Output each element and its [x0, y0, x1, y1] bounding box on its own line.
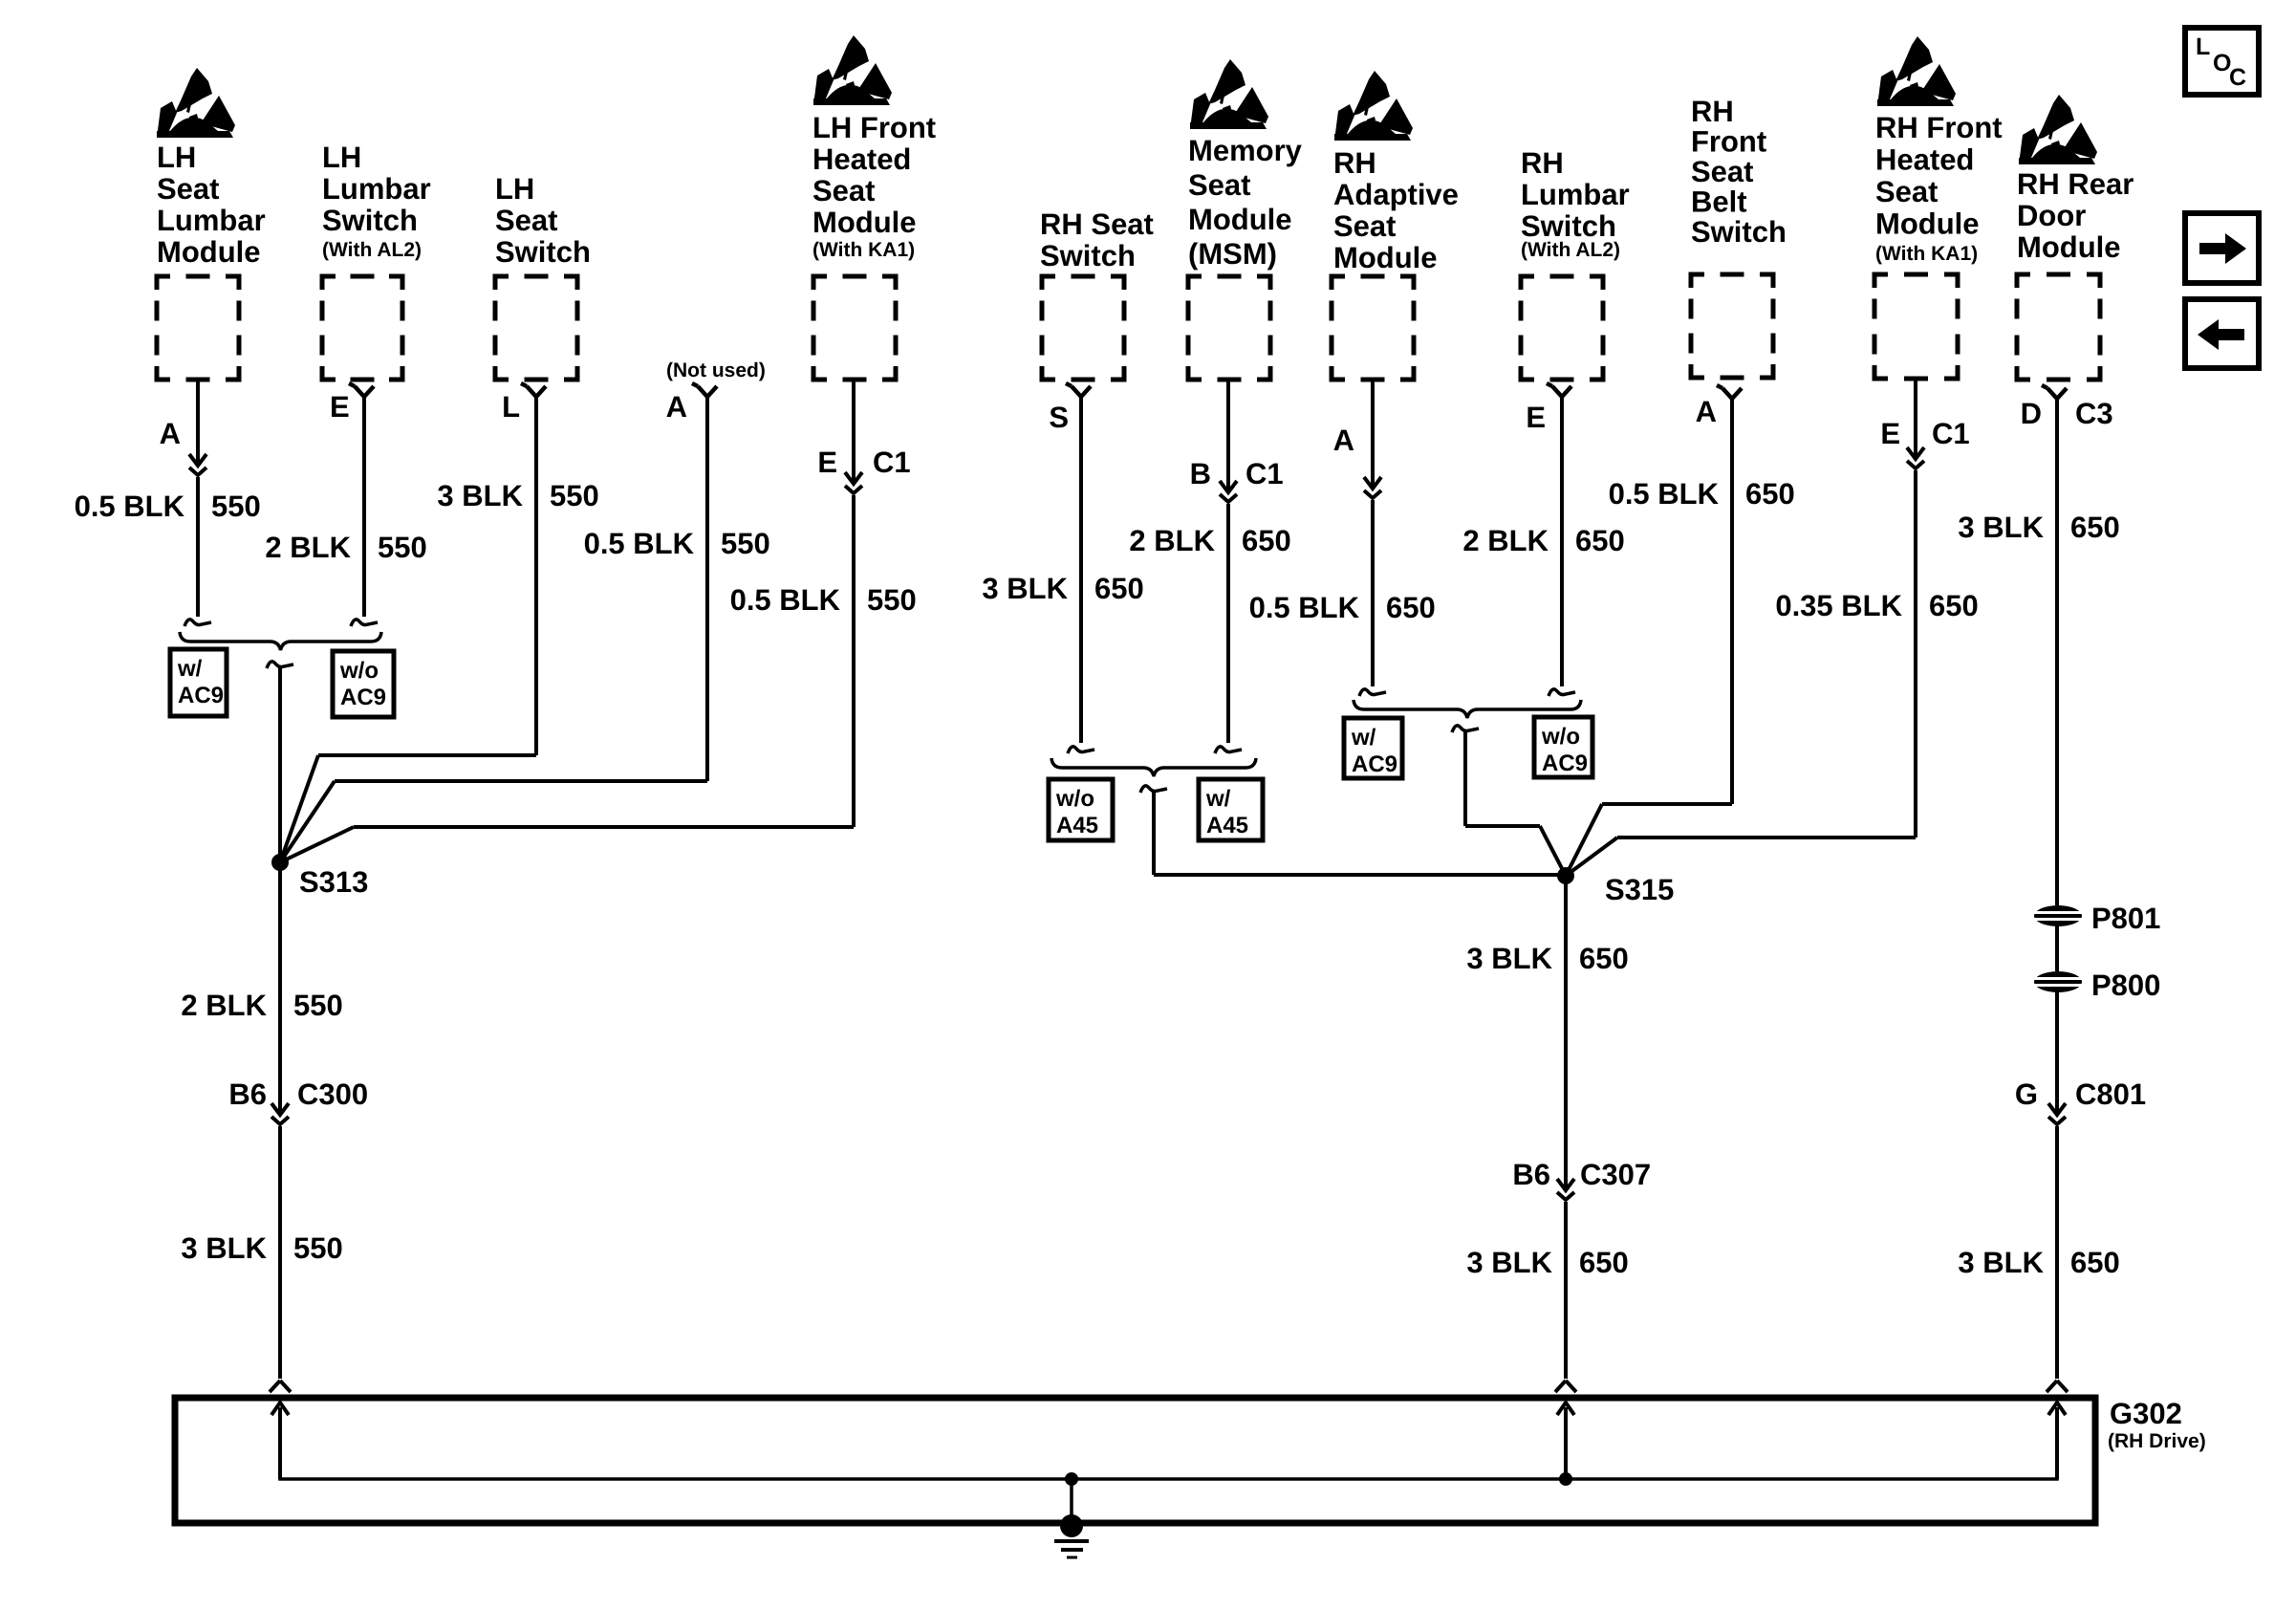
svg-text:Module: Module [812, 206, 917, 239]
wire RH adaptive seat pin A upper [1371, 380, 1375, 487]
svg-text:650: 650 [1575, 524, 1625, 557]
svg-text:LH: LH [157, 141, 196, 174]
svg-text:(Not used): (Not used) [666, 359, 766, 381]
wire end hook (LH lumbar switch) [351, 620, 378, 626]
svg-text:B: B [1190, 457, 1211, 490]
svg-text:Belt: Belt [1691, 185, 1747, 219]
svg-text:w/o: w/o [1541, 724, 1580, 750]
wire from right AC9 brace down [1463, 730, 1467, 826]
svg-text:Seat: Seat [812, 174, 875, 207]
svg-text:0.5 BLK: 0.5 BLK [1249, 591, 1360, 624]
wire horizontal run (right AC9 group) [1465, 824, 1540, 828]
brace joining RH adaptive and RH lumbar wires (AC9 options) [1354, 700, 1581, 718]
svg-text:Adaptive: Adaptive [1333, 178, 1459, 211]
svg-text:C1: C1 [1932, 417, 1970, 450]
svg-text:550: 550 [211, 490, 261, 523]
wire 3 BLK 650 from C307 to G302 [1564, 1202, 1568, 1379]
component LH Seat Switch label [495, 172, 591, 269]
svg-text:C3: C3 [2075, 397, 2113, 430]
svg-text:550: 550 [867, 583, 917, 617]
svg-text:A: A [1696, 395, 1717, 428]
LH Seat Switch connector box [495, 276, 577, 380]
wire diagonal into S313 (LH seat switch) [280, 755, 318, 862]
hook below brace (A45 group) [1140, 786, 1167, 793]
svg-text:(With KA1): (With KA1) [812, 239, 915, 261]
component RH Adaptive Seat Module label [1333, 146, 1459, 274]
svg-text:P800: P800 [2091, 968, 2160, 1002]
svg-text:Seat: Seat [157, 172, 219, 206]
wire ground tap down to G302 ground point [1070, 1479, 1073, 1524]
RH Front Seat Belt Switch connector box [1691, 274, 1773, 378]
connector arrow on LH seat lumbar wire [189, 454, 206, 475]
svg-text:0.5 BLK: 0.5 BLK [1609, 477, 1720, 511]
svg-text:650: 650 [1386, 591, 1436, 624]
svg-text:Heated: Heated [1875, 143, 1974, 177]
svg-text:A: A [160, 417, 181, 450]
svg-text:C1: C1 [1245, 457, 1284, 490]
connector C307 arrow [1557, 1179, 1574, 1200]
svg-text:Switch: Switch [1040, 239, 1136, 272]
svg-text:E: E [817, 446, 837, 479]
terminal fork pin A (RH Front Seat Belt Switch) [1717, 385, 1742, 399]
svg-text:RH Front: RH Front [1875, 111, 2003, 144]
component RH Seat Switch label [1040, 207, 1154, 272]
option box w/o AC9 (left) [333, 651, 394, 717]
svg-text:550: 550 [721, 527, 770, 560]
svg-text:3 BLK: 3 BLK [1958, 511, 2044, 544]
wire horizontal run into S315 (A45 group) [1154, 873, 1566, 877]
ESD-sensitive symbol (Memory Seat Module) [1190, 59, 1268, 129]
svg-text:3 BLK: 3 BLK [437, 479, 523, 512]
option box w/ AC9 (right) [1344, 718, 1402, 778]
RH Front Heated Seat Module connector box [1874, 274, 1958, 379]
RH Lumbar Switch connector box [1521, 276, 1603, 380]
svg-text:3 BLK: 3 BLK [1466, 1246, 1552, 1279]
svg-text:3 BLK: 3 BLK [1958, 1246, 2044, 1279]
terminal fork pin A (not used) [692, 383, 717, 397]
connector C300 arrow [271, 1103, 289, 1124]
wire 3 BLK 550 from C300 to G302 [278, 1126, 282, 1379]
LH Front Heated Seat Module connector box [813, 276, 896, 380]
svg-text:C307: C307 [1580, 1158, 1651, 1191]
svg-text:Seat: Seat [1333, 209, 1396, 243]
wire LH Seat Lumbar Module pin A upper [196, 380, 200, 464]
svg-text:2 BLK: 2 BLK [181, 989, 267, 1022]
wire from A45 brace down [1152, 792, 1156, 875]
wire horizontal run to S315 (belt switch) [1602, 802, 1732, 806]
wire horizontal run to S313 (not used) [335, 779, 707, 783]
RH Rear Door Module connector box [2017, 274, 2100, 380]
wire diagonal into S315 (right AC9 group) [1540, 826, 1566, 876]
brace joining LH lumbar wires (w/ AC9 vs w/o AC9) [180, 632, 381, 650]
svg-text:(MSM): (MSM) [1188, 237, 1277, 271]
svg-text:AC9: AC9 [178, 683, 224, 708]
junction dot on collector line (middle) [1559, 1472, 1572, 1486]
terminal chevron at G302 (right wire) [2047, 1381, 2068, 1392]
svg-text:Module: Module [1188, 203, 1292, 236]
svg-text:A45: A45 [1056, 813, 1098, 838]
ground symbol [1054, 1541, 1089, 1557]
svg-text:550: 550 [378, 531, 427, 564]
svg-text:RH: RH [1333, 146, 1376, 180]
svg-text:Switch: Switch [495, 235, 591, 269]
svg-text:Module: Module [1333, 241, 1438, 274]
svg-text:E: E [1526, 401, 1546, 434]
svg-text:C300: C300 [297, 1077, 368, 1111]
wire from brace to splice S313 [278, 667, 282, 862]
svg-text:Switch: Switch [322, 204, 418, 237]
svg-text:Module: Module [157, 235, 261, 269]
svg-text:Door: Door [2017, 199, 2086, 232]
terminal fork pin S (RH Seat Switch) [1066, 383, 1091, 397]
wire horizontal run to S313 (LH seat switch) [318, 753, 536, 757]
splice S315 junction dot [1557, 867, 1574, 884]
wire diagonal into S315 (belt switch) [1566, 804, 1602, 876]
svg-text:0.5 BLK: 0.5 BLK [75, 490, 185, 523]
wire 0.5 BLK 650 from RH Adaptive Seat Module [1371, 500, 1375, 686]
wire 0.35 BLK 650 from RH Front Heated Seat Module [1914, 470, 1917, 838]
svg-text:Lumbar: Lumbar [322, 172, 431, 206]
svg-text:0.5 BLK: 0.5 BLK [730, 583, 841, 617]
svg-text:Heated: Heated [812, 142, 911, 176]
terminal fork pin E (LH Lumbar Switch) [349, 383, 374, 397]
hook below brace (LH group) [267, 662, 293, 668]
svg-text:A45: A45 [1206, 813, 1248, 838]
svg-text:S313: S313 [299, 865, 368, 899]
wire 3 BLK 650 from RH Rear Door Module [2055, 399, 2059, 905]
wire diagonal into S313 (LH front heated seat) [280, 827, 354, 862]
hook below brace (right AC9 group) [1452, 726, 1479, 732]
component RH Front Seat Belt Switch label [1691, 95, 1787, 249]
connector arrow (RH adaptive seat wire) [1364, 477, 1381, 498]
component Memory Seat Module label [1188, 134, 1303, 271]
connector C1 arrow (LH front heated seat wire) [845, 472, 862, 493]
svg-text:AC9: AC9 [1352, 751, 1397, 777]
svg-text:L: L [2196, 33, 2210, 60]
wire RH front heated seat pin E upper [1914, 379, 1917, 457]
wire 0.5 BLK 650 from RH Front Seat Belt Switch [1730, 399, 1734, 804]
svg-text:(With AL2): (With AL2) [322, 239, 422, 261]
next-page arrow box (right arrow) [2185, 213, 2259, 283]
svg-text:Lumbar: Lumbar [157, 204, 266, 237]
svg-text:B6: B6 [1512, 1158, 1550, 1191]
svg-text:w/o: w/o [1055, 786, 1094, 812]
svg-text:650: 650 [1094, 572, 1144, 605]
svg-text:650: 650 [1579, 942, 1629, 975]
LOC legend box [2185, 28, 2259, 95]
svg-text:RH: RH [1521, 146, 1564, 180]
svg-text:RH Rear: RH Rear [2017, 167, 2134, 201]
junction dot on collector line (ground tap) [1065, 1472, 1078, 1486]
ESD-sensitive symbol (RH Adaptive Seat Module) [1334, 71, 1413, 141]
svg-text:A: A [666, 390, 687, 424]
svg-text:(With AL2): (With AL2) [1521, 239, 1620, 261]
ESD-sensitive symbol (LH Front Heated Seat Module) [813, 35, 892, 105]
wire between P801 and P800 [2055, 925, 2059, 971]
wire 2 BLK 550 from S313 down to C300 [278, 862, 282, 1115]
component LH Front Heated Seat Module label [812, 111, 936, 261]
svg-text:G: G [2015, 1077, 2038, 1111]
svg-text:C1: C1 [873, 446, 911, 479]
svg-text:w/: w/ [1205, 786, 1231, 812]
wire 3 BLK 550 from LH Seat Switch [534, 397, 538, 755]
wire end hook (RH seat switch) [1068, 747, 1094, 753]
option box w/ A45 [1199, 779, 1263, 840]
wire 3 BLK 650 from S315 down to C307 [1564, 876, 1568, 1190]
wire diagonal into S313 (not used) [280, 781, 335, 862]
svg-text:LH: LH [495, 172, 534, 206]
wire end hook (RH lumbar switch) [1549, 689, 1575, 696]
ground bus arrow (middle) [1557, 1403, 1574, 1479]
svg-text:Switch: Switch [1521, 209, 1616, 243]
svg-text:P801: P801 [2091, 902, 2160, 935]
wire 2 BLK 650 from Memory Seat Module [1226, 504, 1230, 743]
wire 3 BLK 650 from RH Seat Switch [1079, 397, 1083, 743]
terminal chevron at G302 (middle wire) [1555, 1381, 1576, 1392]
svg-text:Seat: Seat [1875, 175, 1938, 208]
svg-text:0.35 BLK: 0.35 BLK [1775, 589, 1902, 622]
wire 2 BLK 550 from LH Lumbar Switch [362, 397, 366, 617]
wire LH front heated seat pin E upper [852, 380, 856, 482]
svg-text:S: S [1049, 401, 1069, 434]
ground bus arrow (left) [271, 1403, 289, 1479]
wire end hook (LH seat lumbar) [184, 620, 211, 626]
ESD-sensitive symbol (RH Front Heated Seat Module) [1877, 36, 1956, 106]
component LH Seat Lumbar Module label [157, 141, 266, 269]
svg-text:Lumbar: Lumbar [1521, 178, 1630, 211]
Memory Seat Module connector box [1188, 276, 1270, 380]
svg-text:Module: Module [2017, 230, 2121, 264]
pass-through grommet P800 [2034, 971, 2082, 992]
svg-text:S315: S315 [1605, 873, 1674, 906]
svg-text:650: 650 [1579, 1246, 1629, 1279]
terminal chevron at G302 (left wire) [270, 1381, 291, 1392]
svg-text:E: E [330, 390, 350, 424]
svg-text:2 BLK: 2 BLK [265, 531, 351, 564]
svg-text:Module: Module [1875, 207, 1980, 241]
svg-text:3 BLK: 3 BLK [181, 1231, 267, 1265]
wire from P800 down to C801 [2055, 991, 2059, 1115]
svg-text:AC9: AC9 [1542, 751, 1588, 776]
svg-text:AC9: AC9 [340, 685, 386, 710]
svg-text:3 BLK: 3 BLK [1466, 942, 1552, 975]
connector C1 arrow (RH front heated seat wire) [1907, 447, 1924, 468]
svg-text:G302: G302 [2110, 1397, 2182, 1430]
ESD-sensitive symbol (RH Rear Door Module) [2019, 95, 2097, 164]
svg-text:LH Front: LH Front [812, 111, 936, 144]
svg-text:Memory: Memory [1188, 134, 1303, 167]
brace joining RH seat switch and MSM wires (A45 options) [1051, 758, 1256, 776]
svg-text:LH: LH [322, 141, 361, 174]
svg-text:650: 650 [1929, 589, 1979, 622]
option box w/ AC9 (left) [170, 649, 227, 716]
svg-text:650: 650 [1242, 524, 1291, 557]
terminal fork pin E (RH Lumbar Switch) [1547, 383, 1571, 397]
svg-text:w/o: w/o [339, 658, 379, 684]
wire end hook (MSM) [1215, 747, 1242, 753]
svg-text:Seat: Seat [495, 204, 557, 237]
wire 0.5 BLK 550 from LH Front Heated Seat Module [852, 495, 856, 827]
svg-text:B6: B6 [228, 1077, 267, 1111]
svg-text:w/: w/ [177, 656, 203, 682]
svg-text:2 BLK: 2 BLK [1462, 524, 1549, 557]
svg-text:L: L [502, 390, 520, 424]
svg-text:Front: Front [1691, 125, 1766, 159]
wire MSM pin B upper [1226, 380, 1230, 490]
connector C1 arrow (MSM wire) [1220, 481, 1237, 502]
wire 2 BLK 650 from RH Lumbar Switch [1560, 397, 1564, 686]
ground point dot G302 [1060, 1514, 1083, 1537]
svg-text:Switch: Switch [1691, 215, 1787, 249]
svg-text:C: C [2229, 64, 2246, 91]
svg-text:650: 650 [1745, 477, 1795, 511]
svg-text:C801: C801 [2075, 1077, 2146, 1111]
splice S313 junction dot [271, 854, 289, 871]
terminal fork pin L (LH Seat Switch) [521, 383, 546, 397]
option box w/o A45 [1049, 779, 1113, 840]
ground bus arrow (right) [2048, 1403, 2066, 1479]
svg-text:550: 550 [293, 1231, 343, 1265]
svg-text:650: 650 [2070, 1246, 2120, 1279]
pass-through grommet P801 [2034, 905, 2082, 926]
ground bus internal collector line [280, 1408, 2057, 1479]
svg-text:E: E [1880, 417, 1900, 450]
wire end hook (RH adaptive seat) [1359, 689, 1386, 696]
component RH Rear Door Module label [2017, 167, 2134, 264]
wire 3 BLK 650 from C801 to G302 [2055, 1126, 2059, 1379]
ground bus G302 rectangle [175, 1398, 2095, 1523]
svg-text:RH Seat: RH Seat [1040, 207, 1154, 241]
svg-text:650: 650 [2070, 511, 2120, 544]
svg-text:(With KA1): (With KA1) [1875, 243, 1978, 265]
wire 0.5 BLK 550 (not used) [705, 397, 709, 781]
RH Seat Switch connector box [1042, 276, 1124, 380]
wire diagonal into S315 (RH front heated seat) [1566, 838, 1617, 876]
svg-text:Seat: Seat [1691, 155, 1753, 188]
wire 0.5 BLK 550 from LH Seat Lumbar Module [196, 477, 200, 617]
LH Seat Lumbar Module connector box [157, 276, 239, 380]
svg-text:w/: w/ [1351, 725, 1376, 751]
option box w/o AC9 (right) [1534, 717, 1592, 777]
wire horizontal run to S315 (RH front heated seat) [1617, 836, 1916, 839]
svg-text:A: A [1333, 424, 1354, 457]
svg-text:D: D [2021, 397, 2042, 430]
svg-text:3 BLK: 3 BLK [982, 572, 1068, 605]
svg-text:(RH Drive): (RH Drive) [2108, 1430, 2206, 1452]
RH Adaptive Seat Module connector box [1332, 276, 1414, 380]
svg-text:0.5 BLK: 0.5 BLK [584, 527, 695, 560]
svg-text:Seat: Seat [1188, 168, 1250, 202]
LH Lumbar Switch connector box [322, 276, 402, 380]
svg-text:550: 550 [550, 479, 599, 512]
svg-text:RH: RH [1691, 95, 1734, 128]
svg-text:550: 550 [293, 989, 343, 1022]
ESD-sensitive symbol (LH Seat Lumbar Module) [157, 68, 235, 138]
svg-text:2 BLK: 2 BLK [1129, 524, 1215, 557]
terminal fork pin D (RH Rear Door Module) [2042, 385, 2067, 399]
component RH Lumbar Switch label [1521, 146, 1630, 261]
previous-page arrow box (left arrow) [2185, 299, 2259, 368]
component RH Front Heated Seat Module label [1875, 111, 2003, 265]
component LH Lumbar Switch label [322, 141, 431, 261]
wire horizontal run to S313 (LH front heated seat) [354, 825, 854, 829]
connector C801 arrow [2048, 1103, 2066, 1124]
